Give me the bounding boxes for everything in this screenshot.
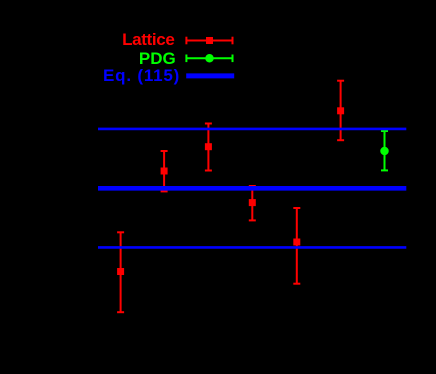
red lattice data point 1 — [117, 232, 124, 312]
legend: Lattice sample errorbar — [186, 37, 232, 45]
legend: PDG sample errorbar — [186, 55, 232, 63]
green PDG data point — [381, 131, 388, 170]
red lattice data point 6 — [337, 81, 344, 141]
red lattice data point 4 — [249, 186, 256, 220]
svg-text:Lattice: Lattice — [122, 30, 174, 49]
svg-text:PDG: PDG — [139, 49, 176, 68]
red lattice data point 5 — [293, 208, 300, 284]
legend: Eq. (115) thick line sample — [186, 73, 234, 78]
red lattice data point 3 — [205, 124, 212, 171]
svg-text:Eq. (115): Eq. (115) — [103, 66, 180, 85]
blue upper band line — [98, 128, 406, 131]
blue lower band line — [98, 246, 406, 249]
red lattice data point 2 — [161, 151, 168, 191]
blue central Eq.(115) thick line — [98, 186, 406, 191]
